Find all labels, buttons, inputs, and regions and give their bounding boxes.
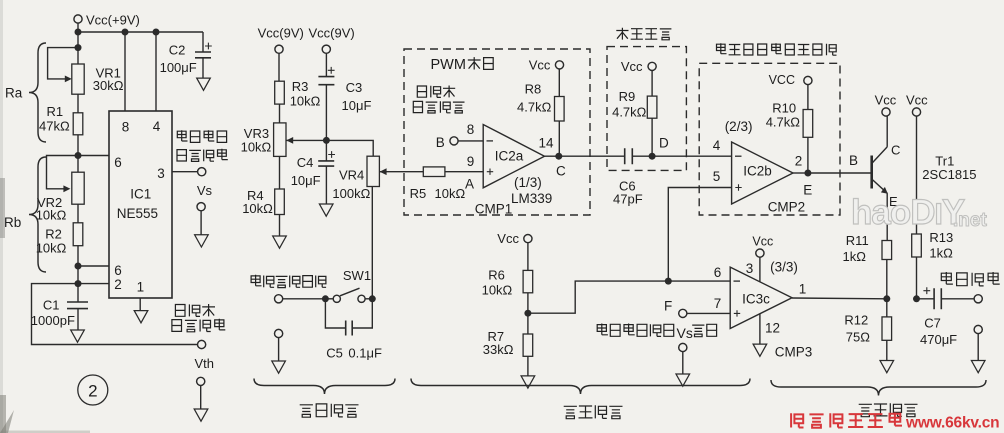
label IC3c xyxy=(742,291,770,306)
label E node xyxy=(803,183,812,198)
label NE555 xyxy=(117,206,158,221)
potentiometer VR1 30k xyxy=(48,48,85,95)
wire emitter to R11 xyxy=(886,193,888,240)
value 47kΩ R1 xyxy=(39,118,70,133)
resistor R3 10k xyxy=(275,81,285,104)
label C7 xyxy=(924,315,941,330)
ground pin1 xyxy=(134,311,148,323)
svg-text:10kΩ: 10kΩ xyxy=(290,93,321,108)
svg-text:Vcc: Vcc xyxy=(497,231,519,246)
svg-text:LM339: LM339 xyxy=(511,191,552,206)
svg-text:10kΩ: 10kΩ xyxy=(242,201,273,216)
dashed box differentiator xyxy=(607,47,686,171)
resistor R9 4.7k xyxy=(647,96,657,118)
label 水平同步 (horiz sync) xyxy=(177,130,226,142)
wire IC3c out to output node xyxy=(792,297,887,300)
wire top Vcc rail xyxy=(78,31,203,33)
pin 12 label IC3c xyxy=(765,320,780,335)
label VCC R10 xyxy=(769,73,795,87)
svg-text:C1: C1 xyxy=(43,297,60,312)
label Vth xyxy=(195,356,215,371)
label Vcc R8 xyxy=(529,58,551,73)
label D node xyxy=(659,136,669,151)
figure number 2 circle xyxy=(78,375,108,405)
power terminal IC3c xyxy=(756,249,764,257)
svg-text:(1/3): (1/3) xyxy=(514,175,542,190)
svg-text:Vcc: Vcc xyxy=(752,234,773,248)
wire VR2 to R2 xyxy=(77,204,79,223)
resistor R8 4.7k xyxy=(555,97,565,122)
terminal Vth ground ref xyxy=(197,377,205,385)
svg-text:C5: C5 xyxy=(326,345,343,360)
value 10uF C3 xyxy=(342,98,372,113)
svg-text:Vcc: Vcc xyxy=(529,58,551,73)
label Vcc R6 xyxy=(497,231,519,246)
pin 14 label xyxy=(538,136,554,151)
wire C7 to output term xyxy=(941,298,974,300)
ground image output xyxy=(971,361,985,373)
op-amp U3c xyxy=(730,267,792,328)
svg-text:10kΩ: 10kΩ xyxy=(241,140,272,155)
wire input to switch xyxy=(282,298,325,300)
svg-text:4.7kΩ: 4.7kΩ xyxy=(517,100,552,115)
junction C node xyxy=(555,153,562,160)
ground C1 xyxy=(71,330,85,342)
wire probe gnd term xyxy=(278,337,280,361)
svg-text:10kΩ: 10kΩ xyxy=(435,186,466,201)
wire VR1 to R1 xyxy=(77,94,79,113)
dashed box PWM xyxy=(404,49,590,215)
wire IC2b pin5 from node xyxy=(668,188,731,282)
wire C6 to D xyxy=(632,155,652,157)
wire VR4 wiper to R5 xyxy=(380,171,424,173)
wire IC2b out to E xyxy=(793,172,808,174)
svg-text:R13: R13 xyxy=(929,230,953,245)
value 1kΩ R11 xyxy=(843,249,867,264)
label IC2b xyxy=(743,163,772,178)
wire R10 to E node xyxy=(807,137,809,173)
transistor Q1 2SC1815 xyxy=(872,116,888,194)
wire to SW1 contact xyxy=(325,298,333,300)
label Vcc R9 xyxy=(621,59,643,74)
svg-text:Vcc: Vcc xyxy=(621,59,643,74)
label 图像输出 (image out) xyxy=(941,272,999,286)
svg-text:1kΩ: 1kΩ xyxy=(929,246,953,261)
svg-text:8: 8 xyxy=(467,122,475,137)
svg-text:10kΩ: 10kΩ xyxy=(482,282,513,297)
junction on rail at x78 xyxy=(75,29,82,36)
label C2 xyxy=(169,43,186,58)
wire R3 to VR3 xyxy=(279,104,281,123)
svg-text:.net: .net xyxy=(953,210,987,231)
value 1000pF xyxy=(31,313,75,328)
wire node to IC1 pin 2 xyxy=(78,283,109,285)
svg-text:Vcc(+9V): Vcc(+9V) xyxy=(86,13,140,28)
label (2/3) xyxy=(725,119,753,134)
pin 6 label IC3c xyxy=(714,265,722,280)
label Vcc collector xyxy=(875,92,897,107)
capacitor C7 470uF xyxy=(923,287,941,309)
svg-text:R12: R12 xyxy=(844,313,868,328)
svg-text:IC1: IC1 xyxy=(130,187,151,202)
label E emitter xyxy=(889,194,898,209)
watermark haoDIY.net xyxy=(851,193,987,232)
ground C4 xyxy=(319,204,333,216)
svg-text:(2/3): (2/3) xyxy=(725,119,753,134)
value 10kΩ R2 xyxy=(36,241,67,256)
brace control section xyxy=(411,379,750,395)
wire R5 to pin9 xyxy=(445,171,483,173)
svg-text:4.7kΩ: 4.7kΩ xyxy=(766,114,801,129)
svg-text:CMP1: CMP1 xyxy=(475,202,513,217)
wire divider step to pin5/6 node xyxy=(528,281,668,313)
label IC2a xyxy=(495,148,524,163)
value 33kΩ R7 xyxy=(483,342,514,357)
wire R7 to ground xyxy=(527,356,529,376)
svg-text:(3/3): (3/3) xyxy=(770,260,798,275)
svg-text:470μF: 470μF xyxy=(920,332,957,347)
capacitor C2 100uF xyxy=(195,32,212,78)
svg-text:R6: R6 xyxy=(488,267,505,282)
power terminal collector xyxy=(882,108,890,116)
label C6 xyxy=(619,179,636,194)
wire node to IC1 pin 6 lower xyxy=(78,265,109,267)
terminal probe ground ref xyxy=(275,329,283,337)
value 4.7kΩ R9 xyxy=(612,104,647,119)
wire F to pin7 xyxy=(687,312,731,314)
pin 4 label IC2b xyxy=(713,138,721,153)
terminal image out ground ref xyxy=(974,325,982,333)
pin 2 label xyxy=(114,277,122,292)
watermark 中国电子制作 red xyxy=(791,413,902,428)
wire R6 to divider node xyxy=(527,293,529,334)
junction switch right xyxy=(369,295,376,302)
svg-text:4.7kΩ: 4.7kΩ xyxy=(612,104,647,119)
wire Vcc to R13 xyxy=(916,116,918,234)
resistor R13 1k xyxy=(912,234,922,257)
label A node xyxy=(465,177,474,192)
potentiometer VR2 10k xyxy=(47,156,85,205)
brace output section xyxy=(771,380,986,396)
label PWM 回路 xyxy=(431,57,494,73)
svg-text:30kΩ: 30kΩ xyxy=(93,78,124,93)
op-amp U2b xyxy=(732,142,793,204)
svg-text:1kΩ: 1kΩ xyxy=(843,249,867,264)
wire image gnd xyxy=(977,333,979,360)
IC U1 NE555 box xyxy=(109,111,172,298)
label Vs xyxy=(197,183,213,198)
label VR1 xyxy=(96,66,121,81)
wire Vcc to R10 xyxy=(807,84,809,109)
scan smudge bottom edge xyxy=(0,410,90,433)
svg-text:33kΩ: 33kΩ xyxy=(483,342,514,357)
label 2SC1815 xyxy=(922,167,976,182)
svg-text:IC2a: IC2a xyxy=(495,148,524,163)
terminal pin3 output xyxy=(198,168,206,176)
label 信号输出 (signal out) xyxy=(177,149,228,162)
svg-text:R11: R11 xyxy=(846,233,869,248)
label 水平同步信号 Vs 输入 xyxy=(597,324,716,342)
svg-text:C: C xyxy=(556,163,566,178)
label VR3 xyxy=(244,126,269,141)
capacitor C5 0.1uF bypass xyxy=(325,299,372,336)
op-amp U2a LM339 xyxy=(483,125,544,188)
label C3 xyxy=(346,80,363,95)
power label Vcc(9V) left xyxy=(258,25,304,40)
label C4 xyxy=(297,155,314,170)
plus pin7 IC3c xyxy=(734,310,740,316)
terminal Vs ground ref xyxy=(197,203,205,211)
svg-text:2: 2 xyxy=(795,153,803,168)
wire Vcc terminal to rail xyxy=(77,23,79,32)
wire Vcc to R6 xyxy=(527,242,529,270)
svg-text:C: C xyxy=(891,142,900,157)
plus pin9 IC2a xyxy=(487,169,493,175)
svg-text:6: 6 xyxy=(114,263,122,278)
svg-text:F: F xyxy=(664,298,672,313)
svg-text:VR4: VR4 xyxy=(339,168,364,183)
svg-text:R9: R9 xyxy=(619,89,636,104)
svg-text:Ra: Ra xyxy=(5,86,23,101)
ground Vth xyxy=(194,409,208,421)
label R10 xyxy=(772,100,796,115)
svg-text:Vcc: Vcc xyxy=(875,92,897,107)
label C collector xyxy=(891,142,900,157)
svg-text:CMP3: CMP3 xyxy=(775,345,813,360)
wire rail down to pin 8 xyxy=(124,32,126,111)
label R8 xyxy=(525,81,542,96)
label SW1 xyxy=(343,268,371,283)
label 微分回路 (diff circuit) xyxy=(616,28,671,40)
label C1 xyxy=(43,297,60,312)
junction node pin6top/VR2 xyxy=(75,152,82,159)
svg-text:IC2b: IC2b xyxy=(743,163,772,178)
wire left rail VR1 top xyxy=(77,32,79,64)
label R2 xyxy=(45,226,62,241)
minus pin8 IC2a xyxy=(487,140,494,142)
minus pin6 IC3c xyxy=(734,280,741,282)
wire R9 to D node xyxy=(651,118,653,156)
label CMP2 xyxy=(768,199,806,214)
resistor R2 10k xyxy=(73,223,83,246)
wire B to pin8 xyxy=(458,140,484,142)
wire rail down to pin 4 xyxy=(155,32,157,111)
ground Vs input xyxy=(676,374,690,386)
wire D to IC2b pin4 xyxy=(652,155,732,157)
label (1/3) xyxy=(514,175,542,190)
label LM339 xyxy=(511,191,552,206)
svg-text:12: 12 xyxy=(765,320,780,335)
plus pin5 IC2b xyxy=(735,184,741,190)
capacitor C4 10uF xyxy=(318,140,335,204)
label 波形选择和反相电路 xyxy=(717,43,837,55)
junction pin2 node xyxy=(75,280,82,287)
svg-text:1: 1 xyxy=(137,280,145,295)
svg-text:2: 2 xyxy=(88,382,97,401)
capacitor C3 10uF xyxy=(318,53,334,140)
resistor R11 1k xyxy=(882,241,892,260)
label CMP3 xyxy=(775,345,813,360)
label IC1 xyxy=(130,187,151,202)
svg-text:75Ω: 75Ω xyxy=(846,330,870,345)
value 10kΩ R3 xyxy=(290,93,321,108)
value 75Ω R12 xyxy=(846,330,870,345)
label R12 xyxy=(844,313,868,328)
svg-text:Vs: Vs xyxy=(677,325,693,341)
wire R4 to ground xyxy=(279,215,281,237)
junction pin6 lower node xyxy=(75,263,82,270)
ground C2 xyxy=(197,78,211,90)
junction out node R11 xyxy=(883,295,890,302)
label R6 xyxy=(488,267,505,282)
svg-text:B: B xyxy=(436,135,445,150)
wire Vs term to ground xyxy=(200,210,202,234)
wire IC3c pin12 down xyxy=(759,314,761,344)
wire Vth term to ground xyxy=(200,385,202,409)
wire sawtooth out left-down-right xyxy=(32,284,198,345)
label 锯齿波 (sawtooth) xyxy=(175,304,215,316)
label B base node xyxy=(849,153,858,168)
svg-text:7: 7 xyxy=(714,296,722,311)
label Tr1 xyxy=(935,154,954,169)
junction VR1 wiper node xyxy=(75,44,82,51)
value 10kΩ R4 xyxy=(242,201,273,216)
brace Rb xyxy=(29,157,46,272)
svg-text:3: 3 xyxy=(746,261,754,276)
wire SW1 to junction xyxy=(365,298,372,300)
svg-text:Rb: Rb xyxy=(4,215,21,230)
label R4 xyxy=(247,188,264,203)
svg-text:1: 1 xyxy=(799,282,807,297)
label 锯齿波 input xyxy=(417,86,455,98)
svg-text:8: 8 xyxy=(122,120,130,135)
power terminal R9 xyxy=(648,62,656,70)
junction bias node xyxy=(323,137,330,144)
value 100kΩ VR4 xyxy=(332,186,370,201)
scan smudge left edge xyxy=(0,0,6,433)
pin 6 upper label xyxy=(114,155,122,170)
wire R8 to C node xyxy=(558,121,560,156)
wire Vs input gnd xyxy=(682,351,684,374)
wire Vcc to IC3c pin3 xyxy=(759,257,761,282)
junction out node R13 xyxy=(913,295,920,302)
label B node xyxy=(436,135,445,150)
label 信号输出 (signal output) xyxy=(172,319,225,332)
pin 3 label xyxy=(157,166,165,181)
value 30kΩ VR1 xyxy=(93,78,124,93)
junction E node xyxy=(804,170,811,177)
value 10kΩ VR2 xyxy=(36,208,67,223)
label 观测信号输入 (probe signal input) xyxy=(251,275,326,288)
svg-text:PWM: PWM xyxy=(431,57,466,73)
minus pin4 IC2b xyxy=(735,155,742,157)
ground probe input xyxy=(272,361,286,373)
resistor R1 47k xyxy=(73,113,83,135)
terminal B xyxy=(450,137,458,145)
junction switch left xyxy=(322,295,329,302)
svg-text:5: 5 xyxy=(713,169,721,184)
svg-text:E: E xyxy=(803,183,812,198)
svg-text:10μF: 10μF xyxy=(291,173,321,188)
svg-text:14: 14 xyxy=(538,136,554,151)
wire Vcc to R8 xyxy=(558,69,560,97)
svg-text:Vth: Vth xyxy=(195,356,215,371)
power terminal R8 xyxy=(555,61,563,69)
svg-text:4: 4 xyxy=(713,138,721,153)
svg-text:Vcc(9V): Vcc(9V) xyxy=(309,25,355,40)
label (3/3) xyxy=(770,260,798,275)
svg-text:R1: R1 xyxy=(47,104,64,119)
pin 1 label xyxy=(137,280,145,295)
svg-text:1000pF: 1000pF xyxy=(31,313,75,328)
label R13 xyxy=(929,230,953,245)
svg-text:2: 2 xyxy=(114,277,122,292)
resistor R5 10k horizontal xyxy=(423,167,445,177)
pin 1 label IC3c xyxy=(799,282,807,297)
wire R1 to node xyxy=(77,135,79,156)
wire VR3 to R4 xyxy=(279,156,281,189)
svg-text:4: 4 xyxy=(153,119,161,134)
wire node to IC3c pin6 xyxy=(668,280,730,282)
svg-text:10μF: 10μF xyxy=(342,98,372,113)
pin 4 label xyxy=(153,119,161,134)
svg-text:0.1μF: 0.1μF xyxy=(348,345,382,360)
svg-text:IC3c: IC3c xyxy=(742,291,770,306)
wire R2 to bottom node xyxy=(77,246,79,284)
brace Ra xyxy=(29,43,46,142)
svg-text:Vcc(9V): Vcc(9V) xyxy=(258,25,304,40)
wire out node to C7 xyxy=(917,298,935,300)
wire R12 from node xyxy=(886,299,888,317)
label R11 xyxy=(846,233,869,248)
power terminal R13 xyxy=(912,108,920,116)
svg-text:2SC1815: 2SC1815 xyxy=(922,167,976,182)
value 1kΩ R13 xyxy=(929,246,953,261)
label C5 xyxy=(326,345,343,360)
label Vcc IC3c xyxy=(752,234,773,248)
power terminal R10 xyxy=(804,76,812,84)
watermark www.66kv.cn red xyxy=(905,415,999,432)
svg-text:6: 6 xyxy=(114,155,122,170)
svg-text:C7: C7 xyxy=(924,315,941,330)
resistor R7 33k xyxy=(523,334,533,356)
pin 3 label IC3c xyxy=(746,261,754,276)
junction on rail at x156 xyxy=(153,29,160,36)
wire VR4 bottom down xyxy=(371,187,373,299)
svg-text:6: 6 xyxy=(714,265,722,280)
power terminal Vcc right xyxy=(322,45,330,53)
potentiometer VR3 10k xyxy=(274,123,327,156)
svg-text:3: 3 xyxy=(157,166,165,181)
terminal image output xyxy=(974,295,982,303)
value 100uF C2 xyxy=(160,60,197,75)
svg-text:VCC: VCC xyxy=(769,73,795,87)
ground R12 xyxy=(880,361,894,373)
dashed box waveform select xyxy=(699,63,840,215)
label R3 xyxy=(292,79,309,94)
value 4.7kΩ R8 xyxy=(517,100,552,115)
junction D node xyxy=(649,153,656,160)
terminal Vs input ground ref xyxy=(679,343,687,351)
svg-text:C3: C3 xyxy=(346,80,363,95)
label R5 value xyxy=(410,186,466,201)
terminal probe input xyxy=(275,295,283,303)
wire IC1 pin 3 out xyxy=(172,171,198,173)
terminal sawtooth output xyxy=(198,340,206,348)
capacitor C6 47pF xyxy=(625,148,633,164)
label R1 xyxy=(47,104,64,119)
wire C to C6 xyxy=(559,155,625,157)
